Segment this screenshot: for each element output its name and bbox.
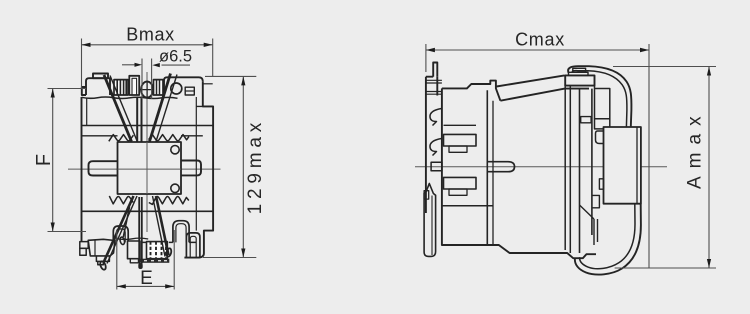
right block bottom-left notch (599, 179, 603, 189)
body bottom edge segments (128, 241, 196, 243)
Amax extension bottom (615, 267, 716, 269)
screw hole ellipse (o6.5) (139, 81, 156, 99)
Cmax extension right / drop line (648, 44, 650, 268)
rear top slope line (497, 75, 565, 86)
body top wavy parting line (82, 97, 178, 99)
DIN strip foot inner line (431, 196, 433, 256)
circles in central block (171, 146, 179, 154)
bottom-right wire tip (166, 248, 172, 257)
left tab of central block (89, 161, 118, 175)
bottom-center hatch terminal (128, 241, 168, 263)
internal vertical x=487.3 (486, 90, 488, 245)
F dimension line (52, 89, 54, 232)
short left wire with loop tip (123, 207, 129, 237)
svg-text:ø6.5: ø6.5 (159, 48, 192, 66)
top-left step (82, 87, 86, 95)
129max extension lines (205, 75, 256, 77)
right ledge line (203, 83, 213, 85)
column tooth (595, 119, 610, 129)
mid section vertical 1 (579, 90, 581, 254)
DIN strip claw 1 (430, 109, 442, 126)
screw circle in right block (171, 83, 182, 94)
center pin wires (139, 197, 142, 264)
right block top-left hook tab (596, 131, 604, 144)
DIN strip crossbar 1 (426, 80, 442, 83)
body left edge (82, 97, 96, 242)
front lower horizontal line (442, 205, 493, 207)
DIN strip crossbar 2 (426, 92, 442, 95)
central block (118, 142, 182, 194)
right terminal block (604, 127, 641, 204)
top-right terminal block (164, 77, 203, 95)
lower right small box (592, 195, 600, 207)
top-left terminal (86, 78, 110, 95)
bottom wavy line (116, 238, 148, 239)
F arrows (51, 89, 55, 98)
top double rect column (129, 76, 139, 95)
inner vertical wall x=196.3 (195, 97, 197, 231)
top cap base (565, 75, 594, 85)
column shelf (595, 89, 610, 119)
lower right foot diagonal (580, 205, 598, 245)
centerlines crossing inside block (118, 142, 182, 194)
Cmax arrows (426, 48, 435, 52)
o6.5 arrows (135, 63, 143, 67)
Amax arrows (707, 67, 711, 76)
bottom arch 1 (113, 226, 128, 242)
top cap rect (93, 74, 108, 79)
bottom arch 2 (173, 221, 189, 243)
sawtooth top of central block (109, 135, 189, 142)
svg-text:F: F (33, 154, 55, 166)
column under cap (565, 86, 594, 253)
bottom-left wire tip (99, 261, 107, 271)
129max arrows (241, 76, 245, 85)
slot bar line above (444, 124, 477, 126)
front section left edge and bottom profile (442, 88, 596, 258)
Cmax dimension line (426, 49, 649, 51)
top cap top step (573, 68, 586, 72)
DIN strip left edge (426, 77, 437, 213)
pen shaped tab at centerline (487, 162, 514, 172)
bottom-left terminal inner lines (96, 256, 109, 265)
right block inner line (636, 127, 638, 204)
svg-text:E: E (140, 268, 153, 289)
DIN strip foot step (424, 191, 429, 199)
DIN rail strip top tab (433, 63, 437, 77)
bottom hook inner curve (580, 204, 635, 269)
slot bar 2 (444, 177, 477, 195)
center pin tip (138, 263, 142, 269)
front section top profile (442, 81, 501, 101)
top hook outer curve (568, 66, 631, 127)
Bmax extension lines (81, 39, 83, 89)
small square with midline (185, 87, 194, 95)
o6.5 leader lines (122, 64, 135, 66)
horizontal centerline (68, 168, 221, 170)
mid section vertical 2 (591, 89, 593, 235)
Bmax dimension line (82, 44, 213, 46)
top hatch block 2 (154, 80, 164, 95)
inner vertical near left edge (86, 98, 88, 126)
Bmax arrows (82, 43, 91, 47)
top-left diagonal wires (104, 75, 132, 142)
top hook inner curve (572, 71, 627, 127)
top cap mid step (569, 72, 589, 75)
svg-text:129max: 129max (245, 118, 266, 214)
E extension lines (116, 230, 118, 290)
top-right diagonal wires (150, 74, 171, 142)
bottom-left terminal wedge (88, 239, 115, 256)
center column wires (137, 97, 141, 142)
F extension lines (48, 88, 87, 90)
E arrows (117, 284, 126, 288)
Amax dimension line (708, 67, 710, 269)
svg-text:Bmax: Bmax (126, 25, 174, 45)
129max dimension line (242, 76, 244, 257)
bottom-right U hook piece (186, 233, 200, 258)
mid top slope line (500, 89, 589, 101)
horizontal centerline (415, 166, 667, 168)
svg-text:Cmax: Cmax (515, 30, 565, 50)
sawtooth bottom of central block (109, 196, 189, 204)
right step notch above tab (196, 105, 213, 107)
inner horizontal line y=211.5 (82, 210, 214, 212)
mid step box (581, 117, 591, 123)
DIN strip foot with latch notch (424, 184, 436, 257)
inner horizontal segments y=135.8 (82, 135, 203, 137)
slot bar 1 (444, 134, 477, 152)
bottom-left diagonal wires (104, 196, 134, 263)
inner horizontal line y=125.5 (82, 125, 214, 127)
internal vertical x=493 (492, 101, 494, 245)
DIN strip claw 2 (430, 139, 442, 156)
Amax extension top (613, 66, 716, 68)
E dimension line (117, 285, 174, 287)
Cmax extension left (425, 44, 427, 72)
bottom-left small tab (80, 242, 88, 256)
o6.5 extension lines (141, 59, 143, 100)
bottom hook outer curve (575, 204, 641, 275)
right tab of central block (181, 161, 201, 176)
vertical centerline (146, 72, 148, 232)
top hatch block 1 (114, 80, 128, 95)
body right profile with steps and tab (184, 81, 213, 257)
bottom-right diagonal wires (156, 196, 169, 255)
DIN strip mid tab (431, 162, 442, 171)
svg-text:Amax: Amax (685, 108, 706, 189)
bottom-center dark bar (140, 259, 169, 263)
